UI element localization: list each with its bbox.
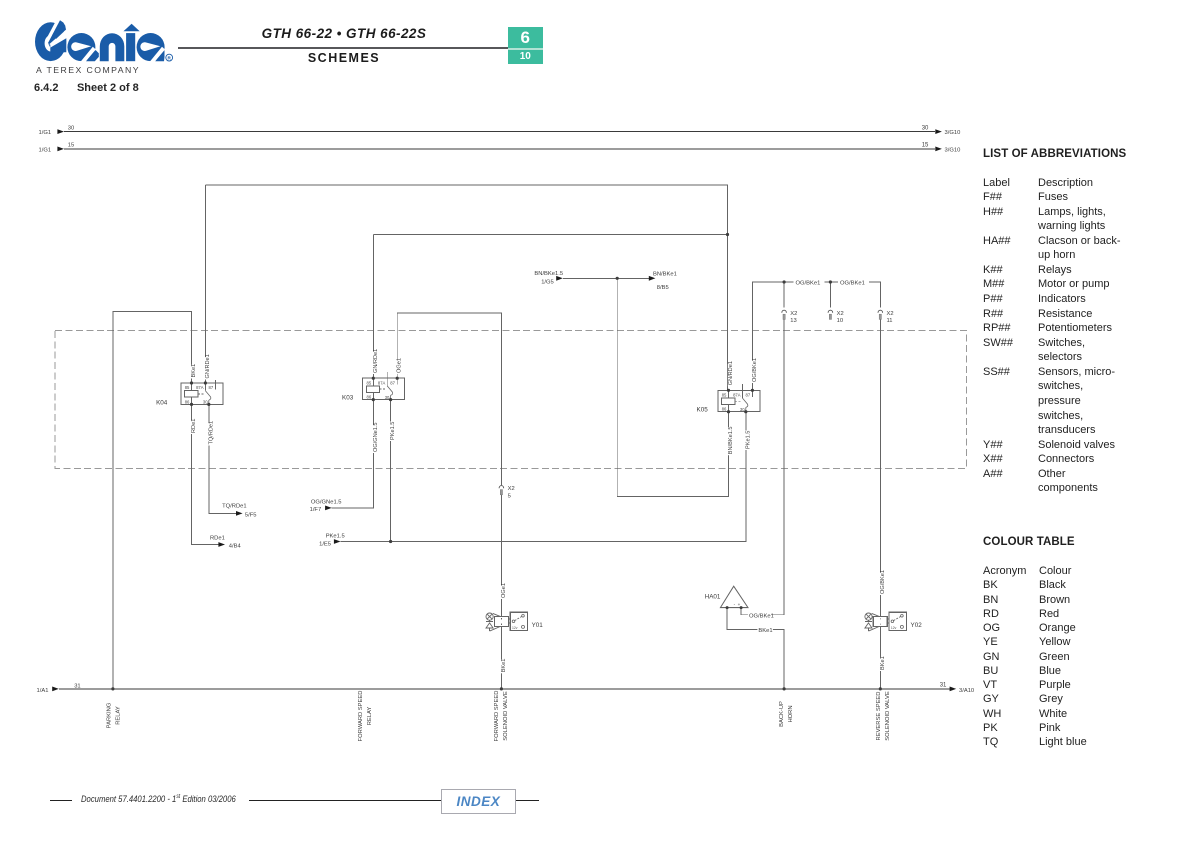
svg-text:OG/GNe1.5: OG/GNe1.5 (311, 500, 342, 506)
svg-text:12v: 12v (512, 626, 518, 630)
svg-text:BACK-UP: BACK-UP (779, 701, 785, 727)
svg-text:X2: X2 (887, 311, 894, 317)
svg-text:85: 85 (367, 380, 372, 385)
svg-text:31: 31 (940, 682, 947, 688)
svg-text:HA01: HA01 (705, 594, 721, 601)
svg-text:10: 10 (837, 318, 843, 324)
svg-text:11: 11 (887, 318, 893, 324)
svg-text:BN/BKe1: BN/BKe1 (653, 271, 677, 277)
svg-text:5: 5 (508, 494, 511, 500)
svg-text:87: 87 (209, 385, 214, 390)
svg-text:3/G10: 3/G10 (945, 130, 961, 136)
svg-text:86: 86 (185, 399, 190, 404)
svg-text:R: R (168, 56, 172, 61)
svg-text:86: 86 (722, 407, 727, 412)
svg-text:87A: 87A (733, 393, 741, 398)
svg-text:85: 85 (185, 385, 190, 390)
svg-text:X2: X2 (837, 311, 844, 317)
svg-text:30: 30 (922, 125, 929, 131)
svg-text:PKe1.5: PKe1.5 (745, 431, 751, 449)
svg-text:BKe1: BKe1 (191, 364, 197, 378)
svg-text:BKe1: BKe1 (758, 628, 772, 634)
svg-text:87A: 87A (196, 385, 204, 390)
svg-text:Y02: Y02 (911, 622, 923, 629)
svg-text:TQ/RDe1: TQ/RDe1 (208, 421, 214, 445)
svg-text:BN/BKe1.5: BN/BKe1.5 (728, 427, 734, 455)
svg-text:1/G1: 1/G1 (39, 130, 52, 136)
svg-text:BN/BKe1.5: BN/BKe1.5 (534, 271, 563, 277)
svg-text:15: 15 (68, 143, 74, 149)
svg-text:-: - (734, 602, 736, 607)
svg-text:Y01: Y01 (532, 622, 544, 629)
svg-text:BKe1: BKe1 (880, 656, 886, 670)
svg-text:PARKING: PARKING (107, 702, 113, 728)
svg-text:+: + (738, 602, 741, 607)
svg-text:TQ/RDe1: TQ/RDe1 (222, 503, 246, 509)
svg-text:3/A10: 3/A10 (959, 688, 974, 694)
svg-text:OG/BKe1: OG/BKe1 (796, 280, 821, 286)
svg-text:8/B5: 8/B5 (657, 285, 669, 291)
svg-text:1/E5: 1/E5 (319, 541, 331, 547)
svg-text:OG/BKe1: OG/BKe1 (840, 280, 865, 286)
svg-text:RELAY: RELAY (367, 707, 373, 726)
svg-text:K05: K05 (697, 407, 709, 414)
svg-text:GN/RDe1: GN/RDe1 (373, 349, 379, 373)
svg-text:OG/BKe1: OG/BKe1 (749, 613, 774, 619)
svg-text:PKe1.5: PKe1.5 (390, 422, 396, 440)
svg-text:OGe1: OGe1 (397, 358, 403, 373)
svg-text:RELAY: RELAY (116, 706, 122, 725)
svg-text:30: 30 (68, 125, 74, 131)
svg-text:87A: 87A (378, 380, 386, 385)
svg-text:12v: 12v (891, 626, 897, 630)
svg-text:X2: X2 (790, 311, 797, 317)
svg-text:K04: K04 (156, 399, 168, 406)
svg-text:31: 31 (74, 683, 80, 689)
svg-text:FORWARD SPEED: FORWARD SPEED (494, 691, 500, 742)
svg-text:BKe1: BKe1 (501, 659, 507, 673)
svg-text:86: 86 (367, 395, 372, 400)
svg-text:1/A1: 1/A1 (37, 688, 49, 694)
svg-text:OGe1: OGe1 (501, 583, 507, 598)
svg-text:5/F5: 5/F5 (245, 513, 257, 519)
svg-text:87: 87 (746, 393, 751, 398)
svg-text:SOLENOID VALVE: SOLENOID VALVE (503, 691, 509, 741)
svg-text:RDe1: RDe1 (210, 536, 225, 542)
svg-text:3/G10: 3/G10 (945, 148, 961, 154)
svg-text:GN/RDe1: GN/RDe1 (205, 354, 211, 378)
svg-text:X2: X2 (508, 486, 515, 492)
svg-text:OG/BKe1: OG/BKe1 (752, 358, 758, 382)
svg-text:87: 87 (390, 380, 395, 385)
svg-text:HORN: HORN (788, 705, 794, 722)
svg-text:13: 13 (790, 318, 796, 324)
svg-text:85: 85 (722, 393, 727, 398)
svg-text:OG/BKe1: OG/BKe1 (880, 570, 886, 594)
svg-text:REVERSE SPEED: REVERSE SPEED (876, 692, 882, 741)
svg-text:K03: K03 (342, 395, 354, 402)
svg-text:1/G1: 1/G1 (39, 148, 52, 154)
svg-text:1/G5: 1/G5 (541, 280, 554, 286)
svg-text:GN/RDe1: GN/RDe1 (728, 361, 734, 385)
svg-text:RDe1: RDe1 (191, 419, 197, 433)
svg-text:15: 15 (922, 143, 929, 149)
svg-text:PKe1.5: PKe1.5 (326, 533, 345, 539)
svg-text:OG/GNe1.5: OG/GNe1.5 (373, 422, 379, 452)
svg-text:SOLENOID VALVE: SOLENOID VALVE (885, 691, 891, 741)
svg-text:1/F7: 1/F7 (310, 507, 322, 513)
svg-text:FORWARD SPEED: FORWARD SPEED (358, 691, 364, 742)
svg-text:4/B4: 4/B4 (229, 544, 242, 550)
